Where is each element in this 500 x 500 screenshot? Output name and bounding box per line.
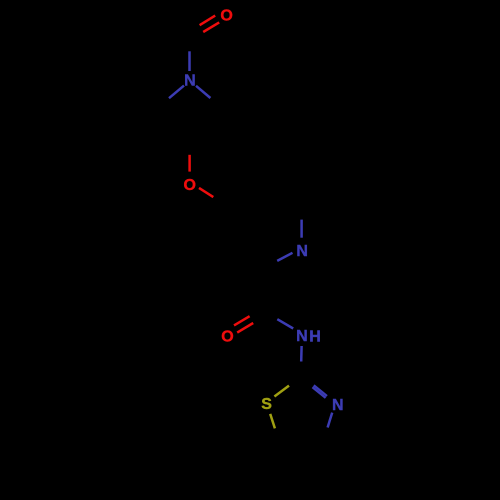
svg-text:H: H [309, 328, 321, 345]
azetidine N-C2 bond left (N half, blue) [169, 86, 184, 99]
thiazole S1-C2 bond (S half, olive) [274, 386, 289, 397]
amide C=O double bond (O half, red), upper line [234, 316, 250, 325]
thiazole S1-C5 bond (S half, olive) [270, 414, 275, 429]
thiazole N3-C4 bond (N half, blue) [328, 413, 333, 428]
svg-text:N: N [332, 397, 344, 414]
svg-text:N: N [296, 328, 308, 345]
bond azetidine C3 to ether O (O half, red) [188, 155, 191, 172]
bond amide N to thiazole C2 (N half, blue) [300, 346, 303, 362]
bond formyl C to azetidine N (N half, blue) [188, 51, 191, 71]
formyl C=O double bond (O half, red), lower line [203, 22, 219, 32]
svg-text:O: O [220, 8, 232, 25]
svg-text:O: O [183, 177, 195, 194]
svg-text:S: S [261, 396, 272, 413]
svg-text:N: N [184, 73, 196, 90]
svg-text:N: N [296, 243, 308, 260]
azetidine N-C2' bond right (N half, blue) [196, 86, 210, 98]
formyl C=O double bond (O half, red), upper line [200, 16, 216, 26]
pyridine C6-N1 bond (N half, blue) [300, 220, 303, 238]
pyridine N1-C2 bond (N half, blue) [277, 253, 292, 261]
thiazole C2=N3 double bond (N half, blue), outer line [314, 385, 327, 396]
bond ether O to pyridine C4 (O half, red) [199, 188, 213, 197]
svg-text:O: O [221, 329, 233, 346]
amide C-N bond (N half, blue) [277, 319, 293, 328]
thiazole C2=N3 double bond (N half, blue), inner line [312, 387, 325, 398]
amide C=O double bond (O half, red), lower line [237, 323, 253, 333]
